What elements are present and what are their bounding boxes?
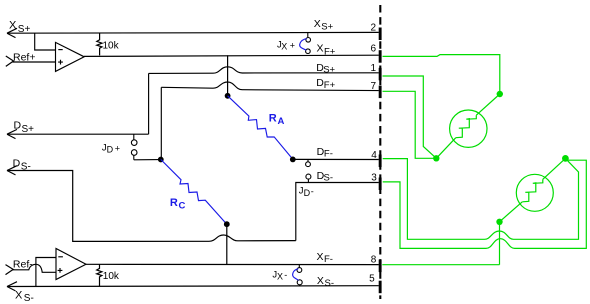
wire JD+ to node bbox=[134, 159, 161, 161]
svg-text:F+: F+ bbox=[324, 46, 336, 57]
wire DS- input from left bbox=[7, 171, 296, 242]
pin tick 8 bbox=[379, 260, 382, 273]
svg-text:3: 3 bbox=[371, 173, 377, 184]
svg-text:D: D bbox=[14, 120, 22, 132]
resistor RA (blue) bbox=[228, 96, 293, 160]
pin tick 5 bbox=[379, 281, 382, 294]
wire green pin7 to RTD1 bbox=[383, 91, 437, 158]
pin tick 4 bbox=[379, 155, 382, 168]
svg-text:6: 6 bbox=[370, 44, 376, 55]
svg-text:4: 4 bbox=[371, 150, 377, 161]
svg-text:7: 7 bbox=[370, 81, 376, 92]
wire XF+ rail (op-amp U1 output) bbox=[84, 55, 379, 56]
node Ref+ chevron input bbox=[6, 56, 14, 66]
svg-text:2: 2 bbox=[370, 23, 376, 34]
node RA label bbox=[269, 112, 285, 127]
svg-text:Ref+: Ref+ bbox=[13, 51, 35, 63]
svg-text:-: - bbox=[284, 270, 287, 280]
wire DS+ input from left bbox=[7, 133, 149, 135]
wire green RTD2 bottom diagonal bbox=[500, 202, 523, 222]
svg-text:F+: F+ bbox=[324, 80, 336, 91]
wire XF- rail (op-amp U2 output) bbox=[86, 263, 379, 265]
wire XF+ tap down to RA bbox=[227, 55, 229, 95]
svg-text:+: + bbox=[290, 41, 295, 51]
wire green RTD2 top diagonal bbox=[543, 158, 566, 179]
svg-text:R: R bbox=[170, 197, 178, 209]
node green dot RTD2 top bbox=[562, 155, 569, 162]
switch JX- blue actuator bbox=[293, 269, 299, 281]
wire XS+ top rail bbox=[7, 31, 379, 34]
node Ref- chevron input bbox=[6, 265, 14, 275]
node XF- label right bbox=[317, 251, 333, 265]
switch JD+ bbox=[131, 134, 137, 160]
svg-text:+: + bbox=[115, 144, 120, 154]
svg-text:X: X bbox=[317, 42, 324, 54]
switch JX- bbox=[297, 265, 302, 287]
node JX- label bbox=[272, 270, 287, 282]
svg-text:S+: S+ bbox=[321, 21, 333, 32]
pin tick 2 bbox=[379, 28, 382, 41]
svg-text:X: X bbox=[317, 251, 324, 263]
wire DS+ rail with crossover hump bbox=[149, 67, 379, 134]
wire green RTD2 down to pin8 line bbox=[499, 222, 501, 265]
resistor R1 10k feedback bbox=[97, 33, 102, 55]
node green dot RTD2 bottom bbox=[496, 219, 502, 225]
wire green RTD1 top diagonal bbox=[476, 94, 500, 115]
svg-text:10k: 10k bbox=[103, 41, 120, 52]
svg-text:10k: 10k bbox=[103, 271, 120, 282]
svg-text:X: X bbox=[277, 272, 283, 282]
svg-text:X: X bbox=[317, 275, 324, 287]
node RC label bbox=[170, 197, 186, 212]
switch JD- bbox=[306, 160, 311, 183]
node XS+ arrow bbox=[7, 28, 17, 37]
svg-text:D: D bbox=[13, 157, 21, 169]
svg-text:X: X bbox=[314, 18, 321, 30]
svg-text:S+: S+ bbox=[323, 64, 335, 75]
node XS- label left bbox=[15, 290, 34, 304]
RTD1 internal zigzag bbox=[456, 115, 477, 138]
node green dot RTD1 bottom bbox=[433, 155, 439, 161]
svg-text:F-: F- bbox=[324, 148, 333, 159]
svg-text:1: 1 bbox=[370, 63, 376, 74]
node XS- arrow bbox=[7, 282, 17, 291]
RTD2 internal zigzag bbox=[522, 179, 543, 202]
wire DF+ rail with crossover hump bbox=[161, 82, 378, 158]
RTD1 sensor circle bbox=[450, 110, 487, 147]
svg-text:R: R bbox=[269, 112, 277, 124]
node DS- label left bbox=[13, 157, 31, 172]
svg-text:F-: F- bbox=[324, 254, 333, 265]
svg-text:D: D bbox=[107, 144, 114, 154]
node DF- label right bbox=[317, 146, 333, 160]
node JD+ label bbox=[102, 142, 120, 154]
op-amp U2 bbox=[56, 249, 86, 280]
node XS+ label left bbox=[9, 20, 30, 35]
resistor R2 10k feedback bbox=[97, 265, 102, 287]
svg-text:S-: S- bbox=[21, 162, 31, 173]
pin tick 1 bbox=[379, 68, 382, 81]
wire DF- rail bbox=[293, 158, 379, 160]
wire Ref+ to op-amp non-inverting input bbox=[13, 61, 56, 63]
node junction dot RC bottom bbox=[224, 221, 230, 227]
wire green pin3 to RTD2 with hump bbox=[383, 160, 587, 248]
wire green pin4 to RTD2 with hump bbox=[383, 158, 579, 239]
svg-text:C: C bbox=[179, 200, 186, 211]
RTD2 sensor circle bbox=[516, 174, 553, 211]
svg-text:S+: S+ bbox=[18, 24, 31, 35]
svg-text:D: D bbox=[304, 188, 311, 198]
node junction dot RA top bbox=[225, 93, 231, 99]
wire U2 inverting input to XS- bbox=[36, 258, 56, 287]
wire Ref- to U2 non-inverting input with hop bbox=[12, 264, 56, 272]
node DS+ label left bbox=[14, 120, 35, 136]
wire green RTD1 bottom diagonal bbox=[436, 138, 456, 159]
svg-text:-: - bbox=[311, 187, 314, 197]
svg-text:5: 5 bbox=[369, 274, 375, 285]
node JD- label bbox=[299, 186, 314, 199]
svg-text:X: X bbox=[9, 20, 17, 32]
svg-text:8: 8 bbox=[371, 254, 377, 265]
wire green pin6 to RTD1 bbox=[383, 55, 500, 91]
switch JX+ blue actuator bbox=[300, 39, 307, 51]
node XF+ label right bbox=[317, 42, 336, 57]
svg-text:X: X bbox=[281, 41, 287, 51]
wire RC to XF- rail bbox=[226, 224, 228, 264]
wire XS+ to op-amp inverting input bbox=[35, 33, 56, 50]
svg-text:S+: S+ bbox=[22, 124, 35, 135]
svg-text:A: A bbox=[278, 116, 285, 127]
svg-text:Ref-: Ref- bbox=[13, 259, 33, 271]
node DS+ label right bbox=[316, 62, 335, 76]
node green dot RTD1 top bbox=[497, 91, 503, 97]
node junction dot RC top bbox=[158, 157, 164, 163]
wire green pin8 bbox=[382, 264, 499, 266]
node XS- label right bbox=[317, 275, 334, 289]
pin tick 7 bbox=[379, 86, 382, 99]
node junction dot DF- bbox=[290, 157, 296, 163]
connector dashed bus line bbox=[379, 5, 381, 299]
node DS- arrow bbox=[7, 166, 17, 175]
wire XS- bottom rail bbox=[7, 285, 379, 288]
node DS- label right bbox=[317, 170, 333, 184]
switch JX+ bbox=[306, 33, 311, 54]
svg-text:S-: S- bbox=[324, 173, 334, 184]
svg-text:S-: S- bbox=[325, 278, 335, 289]
node DF+ label right bbox=[316, 77, 335, 91]
svg-text:X: X bbox=[15, 290, 23, 302]
pin tick 6 bbox=[379, 50, 382, 63]
pin tick 3 bbox=[379, 178, 382, 191]
node XS+ label right bbox=[314, 18, 334, 32]
op-amp U1 bbox=[56, 42, 85, 71]
svg-text:S-: S- bbox=[24, 293, 34, 304]
node JX+ label bbox=[277, 40, 295, 52]
resistor RC (blue) bbox=[161, 160, 227, 225]
wire DS- rail bbox=[296, 183, 379, 241]
node DS+ arrow bbox=[7, 129, 17, 138]
wire green pin1 to RTD1 bbox=[383, 76, 437, 158]
